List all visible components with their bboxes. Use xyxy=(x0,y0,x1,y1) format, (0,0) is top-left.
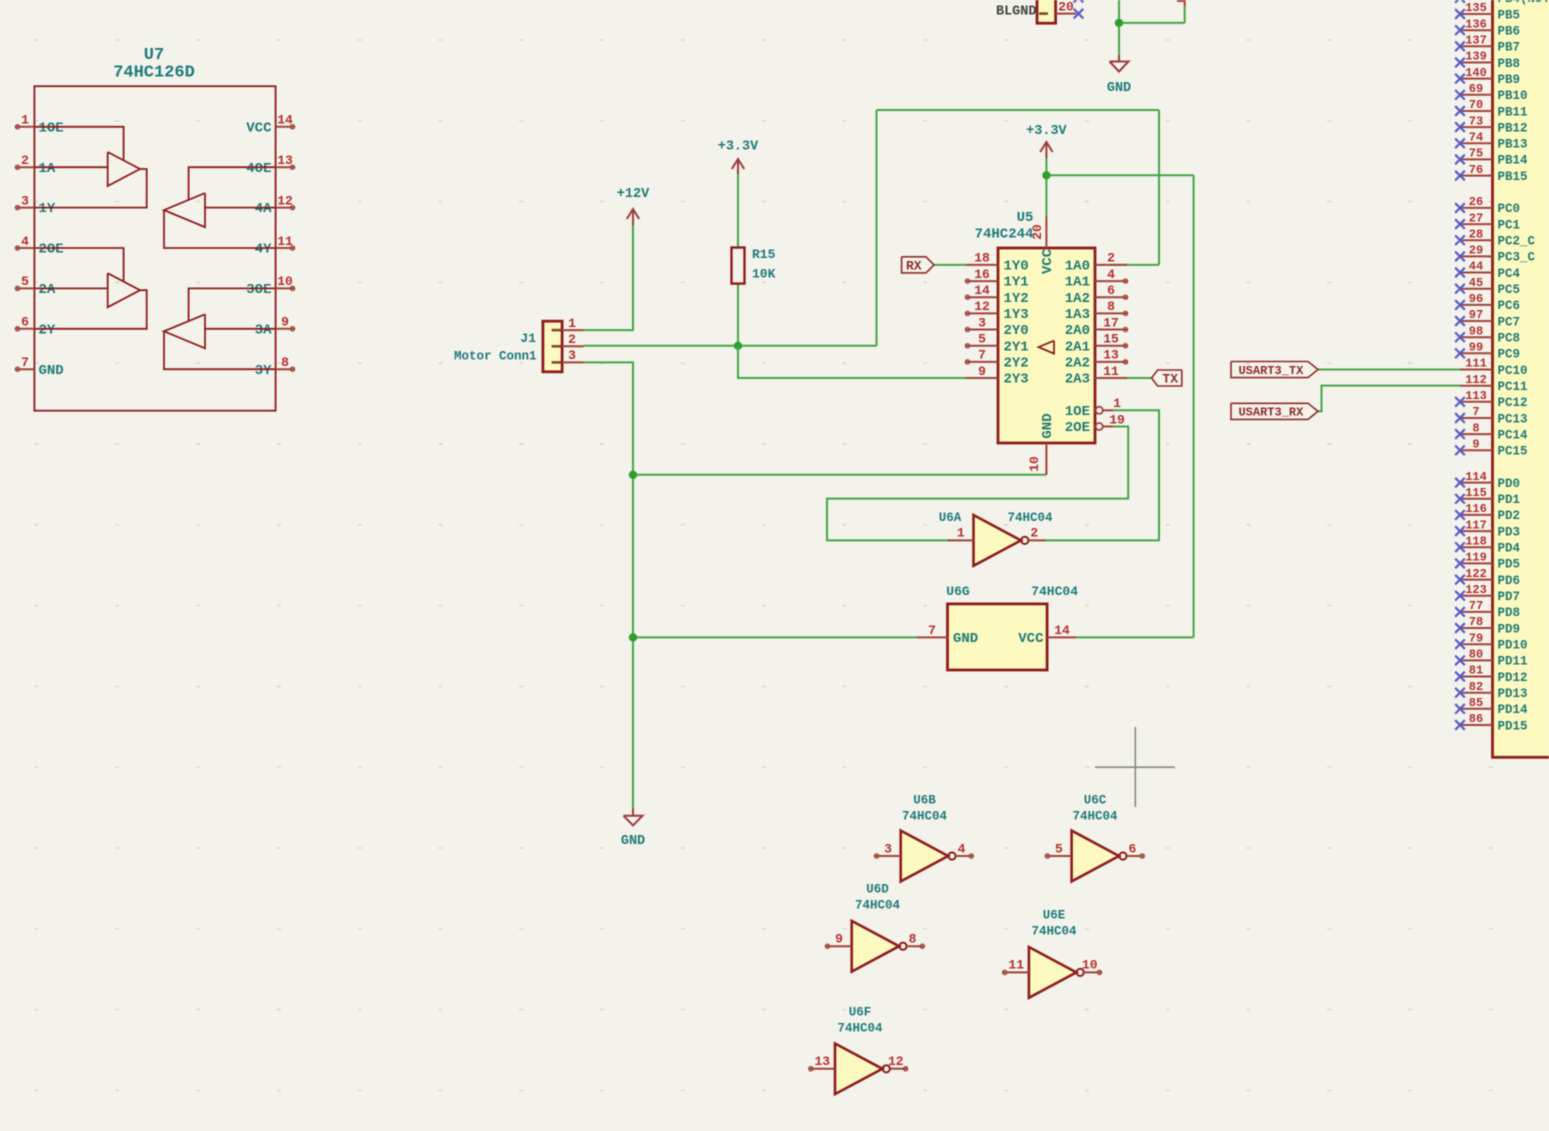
svg-text:99: 99 xyxy=(1469,341,1483,355)
svg-text:1Y2: 1Y2 xyxy=(1004,291,1029,307)
svg-text:PD13: PD13 xyxy=(1498,687,1528,701)
svg-text:116: 116 xyxy=(1465,502,1487,516)
U5 pin 5 2Y1 xyxy=(965,332,1028,356)
MCU pin 136 PB6 xyxy=(1455,17,1520,38)
svg-text:73: 73 xyxy=(1469,114,1483,128)
svg-text:2OE: 2OE xyxy=(1065,420,1090,436)
svg-text:140: 140 xyxy=(1465,66,1487,80)
MCU pin 99 PC9 xyxy=(1455,341,1520,362)
svg-text:1Y1: 1Y1 xyxy=(1004,275,1029,291)
svg-text:111: 111 xyxy=(1465,357,1487,371)
svg-text:PC7: PC7 xyxy=(1498,315,1521,329)
U7 pin 5 2A xyxy=(15,274,56,298)
U5 pin 6 1A2 xyxy=(1065,283,1128,307)
wire: U5 pin 11 2A3 to TX label xyxy=(1111,377,1152,379)
U7 pin 10 3OE xyxy=(246,274,294,298)
svg-text:1: 1 xyxy=(568,316,576,331)
svg-text:2: 2 xyxy=(1107,251,1115,266)
MCU pin 78 PD9 xyxy=(1455,615,1520,636)
wire: GND rail to U6G pin 7 xyxy=(633,636,917,638)
svg-text:U6E: U6E xyxy=(1043,909,1066,923)
MCU pin 118 PD4 xyxy=(1455,534,1520,555)
U5 pin 14 1Y2 xyxy=(965,283,1028,307)
svg-text:1A3: 1A3 xyxy=(1065,307,1090,323)
svg-text:U6C: U6C xyxy=(1084,794,1107,808)
MCU pin 8 PC14 xyxy=(1455,421,1528,442)
svg-text:+3.3V: +3.3V xyxy=(718,140,759,155)
svg-text:2Y2: 2Y2 xyxy=(1004,356,1029,372)
svg-text:PC10: PC10 xyxy=(1498,364,1528,378)
wire: vertical up from J1 pin2 net xyxy=(876,110,878,346)
svg-text:2A2: 2A2 xyxy=(1065,356,1090,372)
U6G pin 14 VCC xyxy=(1018,623,1076,647)
U7 buffer 1 (left top) xyxy=(34,127,146,208)
wire: U6A output to U5 pin1 1OE xyxy=(1044,410,1159,540)
svg-text:U6D: U6D xyxy=(866,883,889,897)
svg-text:PB11: PB11 xyxy=(1498,105,1528,119)
svg-text:6: 6 xyxy=(21,315,29,330)
wire: +3.3V vertical down right of U5 xyxy=(1193,175,1195,637)
svg-text:U5: U5 xyxy=(1017,210,1034,226)
svg-text:11: 11 xyxy=(277,234,293,249)
svg-text:12: 12 xyxy=(888,1054,904,1069)
svg-text:136: 136 xyxy=(1465,17,1487,31)
MCU pin 98 PC8 xyxy=(1455,324,1520,345)
U7 pin 4 2OE xyxy=(15,234,63,258)
U7 pin 3 1Y xyxy=(15,193,56,217)
MCU pin 28 PC2_C xyxy=(1455,227,1535,248)
svg-text:+3.3V: +3.3V xyxy=(1026,124,1067,139)
inverter U6D 74HC04 xyxy=(825,883,924,972)
wire: J1 pin1 to +12V xyxy=(584,226,633,331)
svg-text:8: 8 xyxy=(281,355,289,370)
svg-text:20: 20 xyxy=(1030,224,1045,240)
svg-text:PD6: PD6 xyxy=(1498,574,1521,588)
U5 pin 20 VCC (top) xyxy=(1030,217,1056,275)
svg-text:GND: GND xyxy=(39,363,64,379)
svg-text:45: 45 xyxy=(1469,276,1483,290)
svg-text:15: 15 xyxy=(1103,332,1119,347)
wire: GND net top vertical into sheet xyxy=(1118,0,1120,55)
no-connect on pin above (cut) xyxy=(1074,0,1084,2)
global label TX xyxy=(1152,370,1182,386)
svg-text:122: 122 xyxy=(1465,567,1487,581)
U5 pin 19 2OE (inverted) xyxy=(1065,412,1125,436)
junction: GND rail / U6G GND xyxy=(629,633,637,641)
svg-text:BLGND: BLGND xyxy=(996,5,1037,20)
MCU pin 82 PD13 xyxy=(1455,680,1527,701)
U6G pin 7 GND xyxy=(917,623,978,647)
U5 pin 11 2A3 xyxy=(1065,364,1127,388)
svg-text:74HC04: 74HC04 xyxy=(837,1022,883,1036)
U5 pin 10 GND (bottom) xyxy=(1027,413,1056,474)
inverter U6C 74HC04 xyxy=(1045,794,1144,882)
MCU pin 80 PD11 xyxy=(1455,648,1527,669)
MCU pin PB4(NJTRST) (cut at top) xyxy=(1455,0,1549,6)
svg-text:97: 97 xyxy=(1469,308,1483,322)
MCU pin 139 PB8 xyxy=(1455,50,1520,71)
junction: GND top xyxy=(1115,19,1123,27)
svg-text:U6A: U6A xyxy=(939,511,962,525)
svg-text:76: 76 xyxy=(1469,163,1483,177)
svg-text:VCC: VCC xyxy=(246,120,272,136)
J1 reference and value xyxy=(454,331,537,363)
svg-text:PD8: PD8 xyxy=(1498,606,1521,620)
svg-text:86: 86 xyxy=(1469,712,1483,726)
svg-text:GND: GND xyxy=(1107,81,1131,96)
svg-text:PC13: PC13 xyxy=(1498,412,1528,426)
U5 pin 1 1OE (inverted) xyxy=(1065,396,1121,420)
svg-text:4Y: 4Y xyxy=(255,242,272,258)
svg-text:74HC04: 74HC04 xyxy=(1031,925,1077,939)
svg-text:Motor Conn1: Motor Conn1 xyxy=(454,349,537,363)
svg-text:3Y: 3Y xyxy=(255,363,272,379)
MCU pin 97 PC7 xyxy=(1455,308,1520,329)
svg-text:2Y3: 2Y3 xyxy=(1004,372,1029,388)
MCU pin 74 PB13 xyxy=(1455,131,1527,152)
svg-text:5: 5 xyxy=(978,332,986,347)
svg-text:GND: GND xyxy=(953,631,978,647)
svg-text:+12V: +12V xyxy=(617,187,650,202)
junction: GND rail / U5 GND xyxy=(629,471,637,479)
wire: U5 pin19 2OE to U6A input xyxy=(827,427,1128,541)
svg-text:12: 12 xyxy=(974,299,990,314)
wire: USART3_TX to MCU pin 111 xyxy=(1318,369,1460,371)
U5 pin 2 1A0 xyxy=(1065,251,1127,275)
svg-text:12: 12 xyxy=(277,193,293,208)
svg-text:2Y0: 2Y0 xyxy=(1004,323,1029,339)
svg-text:PD0: PD0 xyxy=(1498,477,1521,491)
svg-text:7: 7 xyxy=(978,348,986,363)
svg-text:2Y: 2Y xyxy=(39,322,56,338)
svg-text:13: 13 xyxy=(277,153,293,168)
svg-text:14: 14 xyxy=(1054,623,1070,638)
svg-text:PB4(NJTRST): PB4(NJTRST) xyxy=(1498,0,1549,6)
svg-text:69: 69 xyxy=(1469,82,1483,96)
wire: USART3_RX to MCU pin 112 xyxy=(1318,386,1460,412)
svg-text:10: 10 xyxy=(277,274,293,289)
svg-text:PD12: PD12 xyxy=(1498,671,1528,685)
svg-text:29: 29 xyxy=(1469,244,1483,258)
U5 pin 12 1Y3 xyxy=(965,299,1028,323)
svg-text:18: 18 xyxy=(974,251,990,266)
resistor R15 xyxy=(732,247,776,284)
wire: horizontal corridor y=110 xyxy=(877,109,1160,111)
svg-text:139: 139 xyxy=(1465,50,1487,64)
MCU pin 111 PC10 xyxy=(1460,357,1528,378)
svg-text:VCC: VCC xyxy=(1040,248,1056,274)
MCU pin 9 PC15 xyxy=(1455,438,1527,459)
svg-text:2: 2 xyxy=(21,153,29,168)
svg-text:PD3: PD3 xyxy=(1498,525,1521,539)
IC U5 74HC244 xyxy=(975,210,1095,443)
svg-text:2A1: 2A1 xyxy=(1065,339,1090,355)
svg-text:79: 79 xyxy=(1469,631,1483,645)
MCU pin 112 PC11 xyxy=(1460,373,1528,394)
svg-text:2A: 2A xyxy=(39,282,56,298)
MCU pin 44 PC4 xyxy=(1455,260,1520,281)
svg-text:4: 4 xyxy=(1107,267,1115,282)
U5 pin 3 2Y0 xyxy=(965,315,1028,339)
svg-text:135: 135 xyxy=(1465,1,1487,15)
svg-text:4OE: 4OE xyxy=(246,161,271,177)
U5 buffer direction mark xyxy=(1039,341,1055,354)
global label USART3_RX xyxy=(1231,403,1318,419)
U7 buffer 2 (left bottom) xyxy=(34,248,146,329)
svg-text:96: 96 xyxy=(1469,292,1483,306)
svg-text:1A2: 1A2 xyxy=(1065,291,1090,307)
wire: branch up to off-sheet pin xyxy=(1184,6,1186,23)
power symbol +3.3V (at U5) xyxy=(1026,124,1067,158)
U7 pin 8 3Y xyxy=(255,355,295,379)
svg-text:U6F: U6F xyxy=(849,1006,872,1020)
svg-text:74HC04: 74HC04 xyxy=(902,810,948,824)
svg-text:U6B: U6B xyxy=(913,794,936,808)
svg-text:PC12: PC12 xyxy=(1498,396,1528,410)
svg-text:U6G: U6G xyxy=(946,584,970,599)
inverter U6E 74HC04 xyxy=(1003,909,1102,998)
svg-text:PC11: PC11 xyxy=(1498,380,1528,394)
svg-text:PB9: PB9 xyxy=(1498,73,1521,87)
svg-text:74HC04: 74HC04 xyxy=(855,899,901,913)
wire: down to U5 pin 1A0 xyxy=(1158,110,1160,265)
svg-text:PD11: PD11 xyxy=(1498,655,1528,669)
svg-text:28: 28 xyxy=(1469,227,1483,241)
svg-text:80: 80 xyxy=(1469,648,1483,662)
svg-text:PB14: PB14 xyxy=(1498,154,1529,168)
svg-text:85: 85 xyxy=(1469,696,1483,710)
svg-text:PB15: PB15 xyxy=(1498,170,1528,184)
svg-text:74HC04: 74HC04 xyxy=(1007,511,1053,525)
svg-text:8: 8 xyxy=(1107,299,1115,314)
MCU pin 135 PB5 xyxy=(1455,1,1520,22)
svg-text:PB7: PB7 xyxy=(1498,41,1521,55)
svg-text:9: 9 xyxy=(281,315,289,330)
svg-text:1A1: 1A1 xyxy=(1065,275,1090,291)
svg-text:PD15: PD15 xyxy=(1498,719,1528,733)
wire: +3.3V to U5 VCC xyxy=(1045,158,1047,217)
svg-text:98: 98 xyxy=(1469,324,1483,338)
U5 pin 13 2A2 xyxy=(1065,348,1128,372)
svg-text:3: 3 xyxy=(568,348,576,363)
svg-text:PD7: PD7 xyxy=(1498,590,1521,604)
power symbol +12V xyxy=(617,187,650,226)
J1 pin 2 xyxy=(552,332,584,347)
svg-text:2: 2 xyxy=(1030,526,1038,541)
svg-text:PC5: PC5 xyxy=(1498,283,1521,297)
MCU pin 113 PC12 xyxy=(1455,389,1527,410)
svg-text:9: 9 xyxy=(978,364,986,379)
MCU pin 77 PD8 xyxy=(1455,599,1520,620)
svg-text:78: 78 xyxy=(1469,615,1483,629)
U5 pin 16 1Y1 xyxy=(965,267,1028,291)
svg-text:PC9: PC9 xyxy=(1498,348,1521,362)
MCU pin 79 PD10 xyxy=(1455,631,1527,652)
svg-text:5: 5 xyxy=(21,274,29,289)
U7 pin 9 3A xyxy=(255,315,295,339)
svg-text:9: 9 xyxy=(1472,438,1479,452)
partial connector at top with BLGND label xyxy=(1037,0,1056,23)
svg-text:TX: TX xyxy=(1162,371,1178,386)
svg-text:7: 7 xyxy=(21,355,29,370)
svg-text:1A: 1A xyxy=(39,161,56,177)
U7 buffer 3 (right bottom, mirrored) xyxy=(164,288,276,369)
svg-text:1Y: 1Y xyxy=(39,201,56,217)
svg-text:117: 117 xyxy=(1465,518,1487,532)
svg-text:20: 20 xyxy=(1058,0,1074,14)
svg-text:6: 6 xyxy=(1107,283,1115,298)
U5 pin 17 2A0 xyxy=(1065,315,1128,339)
IC U6G 74HC04 power unit xyxy=(946,584,1078,670)
svg-text:112: 112 xyxy=(1465,373,1487,387)
svg-text:19: 19 xyxy=(1109,412,1125,427)
svg-text:3OE: 3OE xyxy=(246,282,271,298)
svg-text:114: 114 xyxy=(1465,470,1487,484)
svg-text:PD14: PD14 xyxy=(1498,703,1529,717)
svg-text:1OE: 1OE xyxy=(39,120,64,136)
MCU pin 75 PB14 xyxy=(1455,147,1528,168)
svg-text:8: 8 xyxy=(1472,421,1479,435)
svg-text:123: 123 xyxy=(1465,583,1487,597)
wire: +3.3V branch to right xyxy=(1046,174,1193,176)
svg-text:PC8: PC8 xyxy=(1498,332,1521,346)
svg-text:113: 113 xyxy=(1465,389,1487,403)
svg-text:26: 26 xyxy=(1469,195,1483,209)
svg-text:1OE: 1OE xyxy=(1065,404,1090,420)
svg-text:VCC: VCC xyxy=(1018,631,1044,647)
svg-text:1: 1 xyxy=(1113,396,1121,411)
svg-text:GND: GND xyxy=(1040,413,1056,438)
MCU pin 81 PD12 xyxy=(1455,664,1527,685)
svg-text:2OE: 2OE xyxy=(39,242,64,258)
MCU pin 69 PB10 xyxy=(1455,82,1527,103)
svg-text:115: 115 xyxy=(1465,486,1487,500)
U7 pin 13 4OE xyxy=(246,153,294,177)
svg-text:10: 10 xyxy=(1027,456,1042,472)
J1 pin 3 xyxy=(552,348,584,363)
svg-text:7: 7 xyxy=(928,623,936,638)
svg-text:6: 6 xyxy=(1128,841,1136,856)
svg-text:10K: 10K xyxy=(752,267,776,282)
op-amp U7 74HC126D quad buffer xyxy=(15,46,294,411)
connector J1 Motor Conn1 xyxy=(454,316,584,372)
MCU pin 45 PC5 xyxy=(1455,276,1520,297)
MCU pin 7 PC13 xyxy=(1455,405,1527,426)
svg-text:3: 3 xyxy=(978,315,986,330)
MCU pin 140 PB9 xyxy=(1455,66,1520,87)
global label USART3_TX xyxy=(1231,362,1318,378)
MCU pin 117 PD3 xyxy=(1455,518,1520,539)
inverter U6B 74HC04 xyxy=(874,794,973,882)
svg-text:74: 74 xyxy=(1469,131,1483,145)
svg-text:4: 4 xyxy=(958,841,966,856)
U7 pin 12 4A xyxy=(255,193,295,217)
wire: GND top horizontal branch xyxy=(1119,22,1185,24)
pin 20 of partial connector xyxy=(1056,0,1076,14)
MCU pin 119 PD5 xyxy=(1455,551,1520,572)
MCU pin 70 PB11 xyxy=(1455,98,1527,119)
svg-text:1Y0: 1Y0 xyxy=(1004,259,1029,275)
J1 pin 1 xyxy=(552,316,584,331)
svg-text:R15: R15 xyxy=(752,247,776,262)
svg-text:14: 14 xyxy=(974,283,990,298)
wire: J1 pin2 to top corridor xyxy=(584,345,877,347)
power symbol +3.3V (at R15) xyxy=(718,140,759,175)
MCU pin 116 PD2 xyxy=(1455,502,1520,523)
junction: +3.3V at U5 xyxy=(1042,171,1050,179)
power symbol GND (top) xyxy=(1107,55,1131,96)
junction: R15 / J1 pin2 net xyxy=(734,342,742,350)
MCU pin 29 PC3_C xyxy=(1455,244,1535,265)
IC U? STM32 MCU (partial, right edge) xyxy=(1493,0,1549,757)
MCU pin 114 PD0 xyxy=(1455,470,1520,491)
svg-text:11: 11 xyxy=(1103,364,1119,379)
global label RX xyxy=(902,257,934,274)
svg-text:44: 44 xyxy=(1469,260,1483,274)
svg-text:2Y1: 2Y1 xyxy=(1004,339,1029,355)
MCU pin 123 PD7 xyxy=(1455,583,1520,604)
wire: +3.3V into U6G VCC pin 14 xyxy=(1076,636,1193,638)
wire: RX label to U5 pin 18 xyxy=(934,264,966,266)
svg-text:PD4: PD4 xyxy=(1498,542,1521,556)
svg-text:PB12: PB12 xyxy=(1498,121,1528,135)
svg-text:13: 13 xyxy=(814,1054,830,1069)
wire: J1 pin3 down GND rail xyxy=(584,362,633,808)
U7 pin 7 GND xyxy=(15,355,63,379)
svg-text:13: 13 xyxy=(1103,348,1119,363)
svg-text:14: 14 xyxy=(277,113,293,128)
svg-text:PC15: PC15 xyxy=(1498,445,1528,459)
MCU pin 122 PD6 xyxy=(1455,567,1520,588)
MCU pin 76 PB15 xyxy=(1455,163,1527,184)
svg-text:74HC04: 74HC04 xyxy=(1072,810,1118,824)
svg-text:5: 5 xyxy=(1055,841,1063,856)
svg-text:77: 77 xyxy=(1469,599,1483,613)
svg-text:16: 16 xyxy=(974,267,990,282)
MCU pin 26 PC0 xyxy=(1455,195,1520,216)
svg-text:27: 27 xyxy=(1469,211,1483,225)
svg-text:1: 1 xyxy=(957,526,965,541)
svg-text:4: 4 xyxy=(21,234,29,249)
svg-text:8: 8 xyxy=(909,932,917,947)
svg-text:1Y3: 1Y3 xyxy=(1004,307,1029,323)
svg-text:82: 82 xyxy=(1469,680,1483,694)
U7 pin 14 VCC xyxy=(246,113,294,137)
svg-text:3: 3 xyxy=(884,841,892,856)
power symbol GND (bottom) xyxy=(621,808,645,849)
svg-text:75: 75 xyxy=(1469,147,1483,161)
svg-text:81: 81 xyxy=(1469,664,1483,678)
svg-text:2A3: 2A3 xyxy=(1065,372,1090,388)
svg-text:USART3_TX: USART3_TX xyxy=(1238,364,1304,378)
svg-text:PB8: PB8 xyxy=(1498,57,1521,71)
pin stub of off-sheet part top right xyxy=(1177,0,1185,6)
svg-text:7: 7 xyxy=(1472,405,1479,419)
svg-text:74HC244: 74HC244 xyxy=(975,227,1034,243)
svg-text:PD5: PD5 xyxy=(1498,558,1521,572)
svg-text:1: 1 xyxy=(21,113,29,128)
U5 pin 4 1A1 xyxy=(1065,267,1128,291)
U5 pin 15 2A1 xyxy=(1065,332,1128,356)
svg-text:10: 10 xyxy=(1082,958,1098,973)
svg-text:PB10: PB10 xyxy=(1498,89,1528,103)
MCU pin 86 PD15 xyxy=(1455,712,1527,733)
wire: down then right to U5 pin 9 (2Y3) xyxy=(738,346,966,378)
svg-text:U7: U7 xyxy=(144,46,164,65)
svg-text:PD10: PD10 xyxy=(1498,639,1528,653)
MCU pin 96 PC6 xyxy=(1455,292,1520,313)
U7 pin 1 1OE xyxy=(15,113,63,137)
